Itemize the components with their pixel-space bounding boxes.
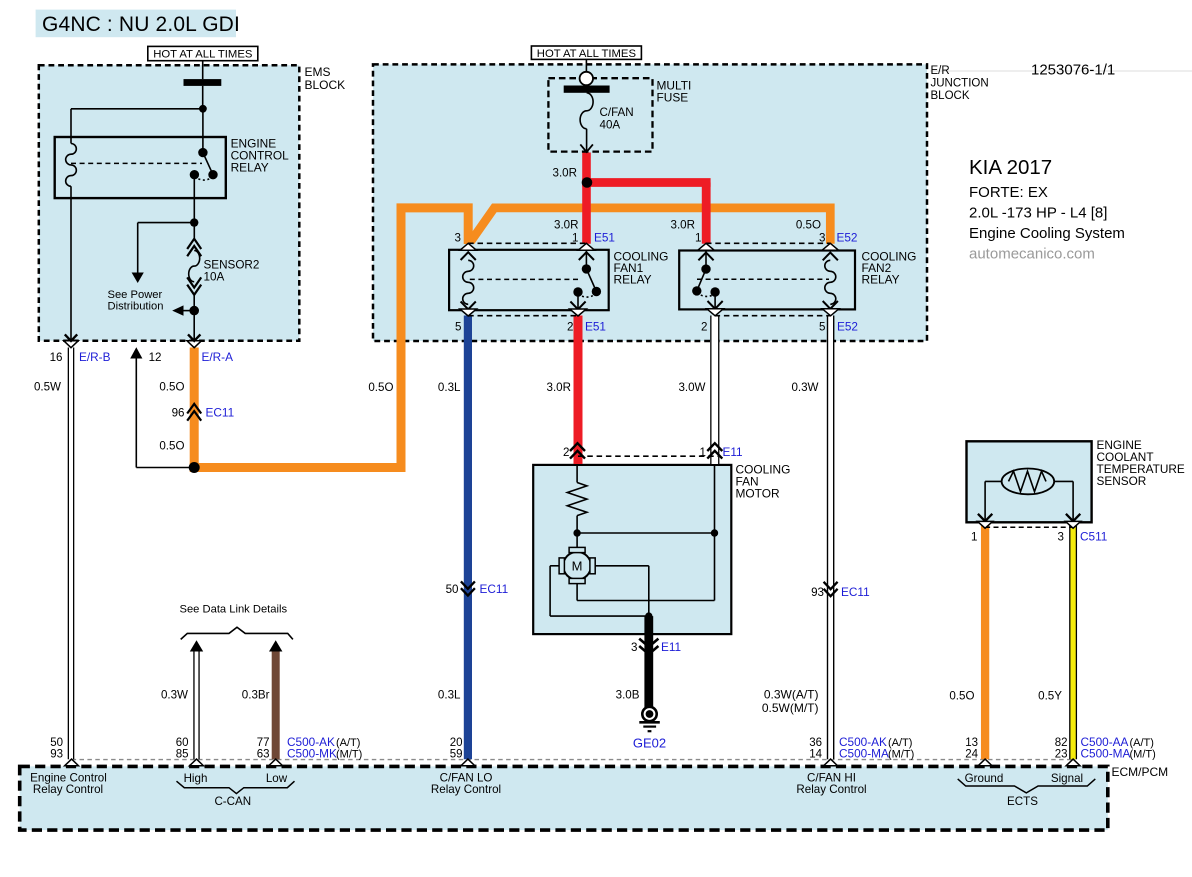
- svg-text:0.5O: 0.5O: [159, 440, 184, 453]
- svg-text:0.5W: 0.5W: [34, 381, 61, 394]
- svg-text:0.3W: 0.3W: [791, 381, 818, 394]
- svg-text:1: 1: [971, 531, 977, 544]
- svg-text:2.0L -173 HP - L4 [8]: 2.0L -173 HP - L4 [8]: [969, 205, 1107, 222]
- svg-text:0.5O: 0.5O: [368, 381, 393, 394]
- svg-text:HOT AT ALL TIMES: HOT AT ALL TIMES: [537, 48, 637, 60]
- svg-text:3.0W: 3.0W: [678, 381, 705, 394]
- svg-text:3.0R: 3.0R: [553, 166, 578, 179]
- svg-text:MOTOR: MOTOR: [736, 486, 780, 500]
- svg-text:M: M: [572, 559, 583, 574]
- svg-text:E51: E51: [585, 320, 606, 334]
- svg-text:3: 3: [1058, 531, 1064, 544]
- svg-text:0.3L: 0.3L: [438, 688, 461, 701]
- svg-text:2: 2: [701, 321, 707, 334]
- svg-text:E11: E11: [723, 445, 743, 459]
- svg-text:3.0B: 3.0B: [616, 688, 640, 701]
- svg-text:GE02: GE02: [633, 735, 666, 750]
- svg-text:0.3W: 0.3W: [161, 688, 188, 701]
- svg-text:3: 3: [455, 232, 461, 245]
- svg-text:EC11: EC11: [841, 585, 870, 599]
- svg-text:Ground: Ground: [965, 772, 1004, 785]
- svg-text:RELAY: RELAY: [862, 273, 900, 287]
- svg-text:(A/T): (A/T): [888, 737, 912, 749]
- svg-text:0.5O: 0.5O: [796, 219, 821, 232]
- svg-text:3: 3: [631, 641, 637, 654]
- svg-text:0.3Br: 0.3Br: [242, 688, 270, 701]
- svg-text:0.3W(A/T): 0.3W(A/T): [764, 687, 819, 701]
- svg-text:E/R-A: E/R-A: [202, 350, 234, 364]
- svg-text:0.5O: 0.5O: [159, 381, 184, 394]
- svg-text:C-CAN: C-CAN: [214, 795, 251, 808]
- svg-text:EC11: EC11: [206, 406, 235, 420]
- svg-text:24: 24: [965, 749, 978, 761]
- svg-text:RELAY: RELAY: [231, 160, 269, 174]
- svg-text:HOT AT ALL TIMES: HOT AT ALL TIMES: [153, 49, 253, 61]
- svg-text:FUSE: FUSE: [657, 91, 689, 105]
- svg-text:E/R-B: E/R-B: [79, 350, 111, 364]
- svg-text:85: 85: [176, 749, 189, 761]
- svg-text:E52: E52: [837, 320, 858, 334]
- svg-text:C500-MK: C500-MK: [287, 747, 337, 761]
- svg-text:Relay Control: Relay Control: [431, 783, 501, 796]
- svg-text:96: 96: [172, 407, 185, 420]
- svg-text:13: 13: [965, 737, 978, 749]
- svg-text:50: 50: [50, 737, 63, 749]
- svg-text:20: 20: [450, 737, 463, 749]
- svg-text:Low: Low: [266, 772, 288, 785]
- svg-text:40A: 40A: [600, 119, 621, 132]
- svg-text:C511: C511: [1080, 530, 1107, 544]
- svg-text:EC11: EC11: [480, 582, 509, 596]
- svg-text:C500-MA: C500-MA: [839, 747, 889, 761]
- svg-text:(M/T): (M/T): [888, 749, 914, 761]
- svg-text:BLOCK: BLOCK: [931, 90, 970, 102]
- svg-text:SENSOR: SENSOR: [1097, 474, 1147, 488]
- svg-text:3.0R: 3.0R: [671, 219, 696, 232]
- svg-text:0.5W(M/T): 0.5W(M/T): [762, 701, 819, 715]
- svg-text:14: 14: [809, 749, 822, 761]
- svg-text:50: 50: [446, 583, 459, 596]
- svg-text:C500-MA: C500-MA: [1081, 747, 1131, 761]
- svg-text:1: 1: [700, 446, 706, 459]
- svg-text:93: 93: [50, 749, 63, 761]
- svg-text:(M/T): (M/T): [1130, 749, 1156, 761]
- svg-text:3.0R: 3.0R: [554, 219, 579, 232]
- svg-text:36: 36: [809, 737, 822, 749]
- svg-text:E51: E51: [594, 231, 615, 245]
- svg-text:JUNCTION: JUNCTION: [931, 78, 989, 90]
- svg-text:0.5Y: 0.5Y: [1038, 690, 1062, 703]
- svg-text:60: 60: [176, 737, 189, 749]
- svg-text:C/FAN: C/FAN: [600, 106, 634, 119]
- svg-text:16: 16: [50, 351, 63, 364]
- svg-text:SENSOR2: SENSOR2: [204, 258, 260, 271]
- svg-text:(M/T): (M/T): [336, 749, 362, 761]
- svg-text:2: 2: [563, 446, 569, 459]
- svg-text:RELAY: RELAY: [614, 273, 652, 287]
- svg-text:KIA 2017: KIA 2017: [969, 156, 1052, 179]
- svg-text:(A/T): (A/T): [336, 737, 360, 749]
- svg-text:ECM/PCM: ECM/PCM: [1112, 765, 1169, 779]
- svg-text:(A/T): (A/T): [1130, 737, 1154, 749]
- svg-text:Distribution: Distribution: [108, 300, 164, 312]
- svg-text:FORTE: EX: FORTE: EX: [969, 184, 1048, 201]
- svg-text:See Data Link Details: See Data Link Details: [180, 603, 288, 615]
- svg-text:Engine Cooling System: Engine Cooling System: [969, 225, 1125, 242]
- svg-text:3.0R: 3.0R: [547, 381, 572, 394]
- svg-text:Relay Control: Relay Control: [33, 783, 103, 796]
- svg-text:ECTS: ECTS: [1007, 795, 1038, 808]
- svg-text:1: 1: [572, 232, 578, 245]
- svg-text:5: 5: [455, 321, 461, 334]
- svg-text:Signal: Signal: [1051, 772, 1083, 785]
- svg-text:See Power: See Power: [108, 289, 163, 301]
- svg-text:BLOCK: BLOCK: [305, 78, 346, 92]
- svg-text:EMS: EMS: [305, 65, 331, 79]
- svg-text:77: 77: [257, 737, 270, 749]
- svg-text:0.3L: 0.3L: [438, 381, 461, 394]
- svg-text:12: 12: [149, 351, 162, 364]
- svg-text:1: 1: [695, 232, 701, 245]
- svg-text:E/R: E/R: [931, 65, 950, 77]
- svg-text:5: 5: [819, 321, 825, 334]
- svg-text:63: 63: [257, 749, 270, 761]
- svg-text:E52: E52: [837, 231, 858, 245]
- svg-text:E11: E11: [661, 640, 681, 654]
- svg-text:automecanico.com: automecanico.com: [969, 246, 1095, 263]
- svg-text:23: 23: [1055, 749, 1068, 761]
- svg-text:82: 82: [1055, 737, 1068, 749]
- svg-text:59: 59: [450, 749, 463, 761]
- svg-text:High: High: [184, 772, 208, 785]
- svg-text:1253076-1/1: 1253076-1/1: [1031, 62, 1115, 79]
- svg-text:2: 2: [567, 321, 573, 334]
- svg-text:Relay Control: Relay Control: [796, 783, 866, 796]
- svg-text:0.5O: 0.5O: [949, 690, 974, 703]
- svg-text:G4NC : NU 2.0L GDI: G4NC : NU 2.0L GDI: [42, 13, 240, 36]
- svg-text:93: 93: [811, 586, 824, 599]
- svg-text:3: 3: [819, 232, 825, 245]
- svg-text:10A: 10A: [204, 271, 225, 284]
